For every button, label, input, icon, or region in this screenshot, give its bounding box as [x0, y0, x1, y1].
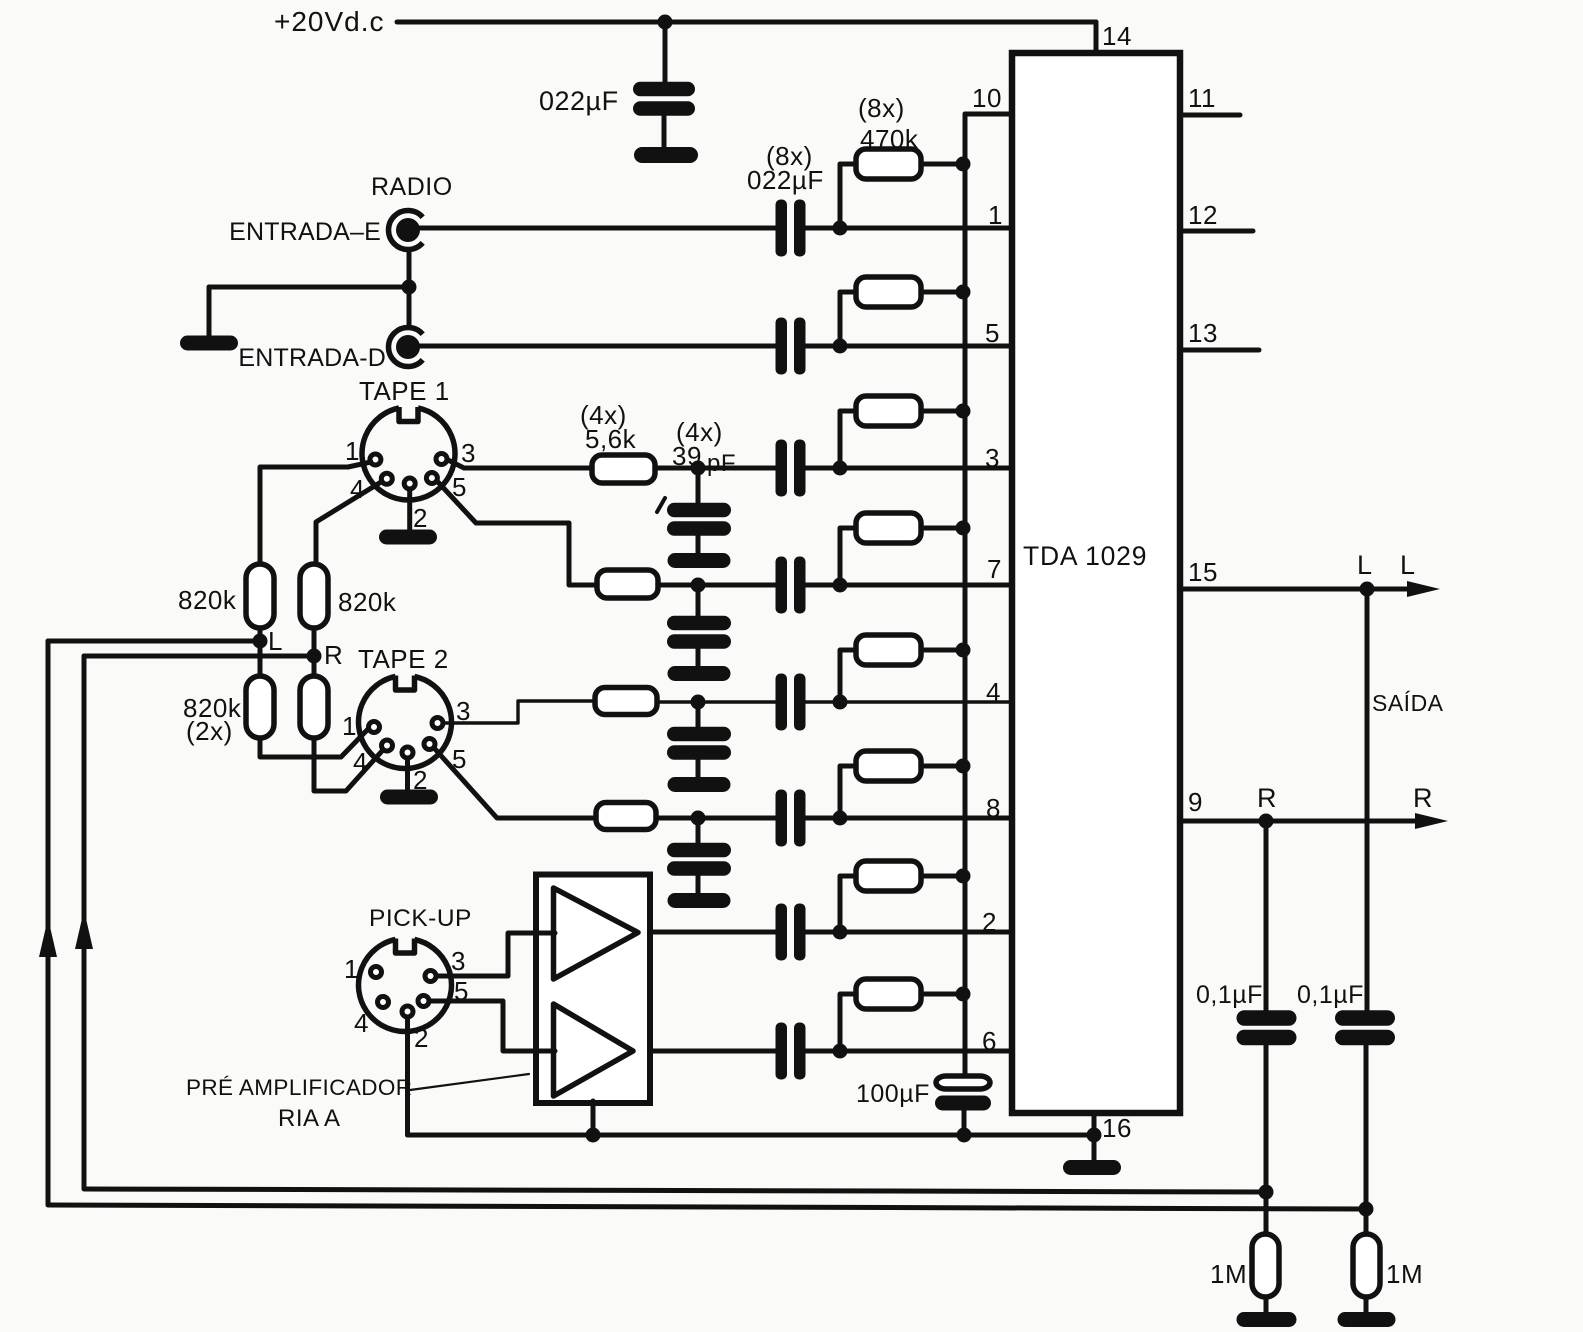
resistor R11 5,6k [595, 688, 657, 715]
node bus junction R1 [956, 157, 971, 172]
resistor R3 470k row pin 3 [840, 396, 963, 468]
wire U2 block ground lead [591, 1101, 596, 1135]
node row4 39pF tap [691, 695, 706, 710]
svg-text:2: 2 [414, 1023, 429, 1053]
svg-text:RADIO: RADIO [371, 173, 453, 201]
capacitor C5 022uF row pin 7 [776, 557, 806, 614]
label J5 pin 1 [344, 954, 359, 984]
wire J3 pin1 to R13 [260, 462, 371, 564]
node row3 39pF tap [691, 461, 706, 476]
arrow up on L feedback wire [39, 918, 57, 957]
wire J5 pin5 to A2 input [430, 1001, 555, 1051]
svg-text:9: 9 [1188, 787, 1203, 817]
wire J3 pin5 to R10 [437, 481, 597, 585]
svg-text:11: 11 [1188, 83, 1216, 113]
label J3 pin 5 [452, 472, 467, 502]
node bus junction R2 [956, 285, 971, 300]
node bus junction R4 [956, 521, 971, 536]
wire bottom ground rail [408, 1133, 1095, 1138]
ground below R18 [1338, 1312, 1396, 1327]
node row1 resistor tap [833, 221, 848, 236]
capacitor C8 022uF row pin 2 [776, 904, 806, 961]
wire J4 pin2 to ground [405, 758, 410, 789]
svg-text:1: 1 [988, 200, 1003, 230]
node L [253, 626, 283, 656]
node bus junction R8 [956, 987, 971, 1002]
capacitor C16 0,1uF on L line [1335, 1010, 1395, 1045]
svg-text:16: 16 [1102, 1113, 1132, 1143]
label L at node [1357, 550, 1373, 580]
node bus junction R6 [956, 759, 971, 774]
svg-text:8: 8 [986, 793, 1001, 823]
node 100uF ground junction [957, 1128, 972, 1143]
resistor R10 5,6k [597, 570, 658, 598]
svg-text:(2x): (2x) [186, 716, 233, 746]
svg-text:PRÉ AMPLIFICADOR: PRÉ AMPLIFICADOR [186, 1075, 412, 1100]
label RIAA [278, 1105, 341, 1132]
svg-text:13: 13 [1188, 318, 1218, 348]
label pin 14 [1102, 21, 1132, 51]
connector J5 PICK-UP DIN [359, 939, 452, 1032]
wire J4 pin3 to R11 [444, 701, 595, 723]
label R at arrow [1413, 783, 1433, 813]
wire row pin 6 line [629, 1049, 1012, 1054]
capacitor C3 022uF row pin 5 [776, 318, 806, 375]
label (8x) 470k [858, 93, 919, 154]
label J3 pin 1 [345, 436, 360, 466]
svg-text:3: 3 [985, 443, 1000, 473]
capacitor C2 022uF row pin 1 [776, 200, 806, 257]
node row5 resistor tap [833, 339, 848, 354]
op-amp U2 RIAA preamp block [536, 875, 650, 1104]
label pin 7 [987, 554, 1002, 584]
wire node R feedback to output R [84, 656, 1266, 1192]
svg-text:12: 12 [1188, 200, 1218, 230]
svg-text:1M: 1M [1210, 1259, 1247, 1289]
ground below C1 [634, 147, 698, 163]
wire row pin 1 mid segment [804, 226, 1012, 231]
node output R [1259, 814, 1274, 829]
svg-text:L: L [268, 626, 283, 656]
svg-text:ENTRADA–E: ENTRADA–E [229, 218, 381, 246]
capacitor C1 022uF supply decoupling [539, 22, 695, 148]
wire output R vertical [1264, 821, 1269, 1234]
label L at arrow [1400, 550, 1416, 580]
capacitor C15 0,1uF on R line [1237, 1010, 1297, 1045]
svg-text:10: 10 [972, 83, 1002, 113]
label J4 pin 1 [342, 711, 357, 741]
label pin 2 [982, 907, 997, 937]
svg-text:2: 2 [982, 907, 997, 937]
svg-text:4: 4 [354, 1008, 369, 1038]
svg-text:7: 7 [987, 554, 1002, 584]
capacitor C9 022uF row pin 6 [776, 1023, 806, 1080]
wire row pin 8 line [656, 816, 1012, 821]
svg-text:022µF: 022µF [747, 165, 824, 195]
node supply tap [658, 15, 673, 30]
svg-text:L: L [1357, 550, 1373, 580]
capacitor C7 022uF row pin 8 [776, 790, 806, 847]
capacitor C10 39pF [667, 468, 731, 555]
resistor R6 470k row pin 8 [840, 751, 963, 818]
label pin 1 [988, 200, 1003, 230]
wire row pin5 left (jack D to C3) [420, 344, 777, 349]
wire pin 12 stub [1180, 200, 1253, 231]
label PRE AMPLIFICADOR [186, 1075, 412, 1100]
label J5 pin 2 [414, 1023, 429, 1053]
wire pin 11 stub [1180, 83, 1240, 115]
connector J1 RCA ENTRADA-E [229, 211, 423, 250]
wire J3 pin3 to R9 [448, 460, 592, 468]
connector J3 TAPE 1 DIN [362, 407, 455, 500]
label 0,1uF right [1297, 981, 1364, 1009]
wire row pin1 left (jack E to C2) [420, 226, 777, 231]
svg-text:0,1µF: 0,1µF [1297, 981, 1364, 1009]
resistor R13 820k [178, 564, 274, 628]
label PICK-UP [369, 905, 472, 932]
node row2 resistor tap [833, 925, 848, 940]
label (4x) 5,6k [580, 400, 637, 454]
ground below R17 [1237, 1312, 1297, 1327]
resistor R4 470k row pin 7 [840, 513, 963, 585]
resistor R12 5,6k [596, 803, 656, 830]
label 0,1uF left [1196, 981, 1263, 1009]
label TAPE 2 [358, 644, 449, 674]
ground at entrada jacks [180, 336, 238, 351]
svg-text:6: 6 [982, 1026, 997, 1056]
op-amp U1 TDA1029 IC body [1012, 53, 1180, 1113]
label pin 3 [985, 443, 1000, 473]
label J3 pin 2 [413, 503, 428, 533]
resistor R1 470k row pin 1 [840, 149, 963, 228]
svg-text:(8x): (8x) [858, 93, 905, 123]
capacitor C13 39pF [667, 818, 731, 895]
svg-text:3: 3 [451, 946, 466, 976]
callout line to U2 [410, 1074, 529, 1090]
svg-text:TAPE 2: TAPE 2 [358, 644, 449, 674]
wire J5 pin2 down to ground rail [405, 1017, 410, 1135]
label pin 6 [982, 1026, 997, 1056]
resistor R9 5,6k [592, 455, 655, 483]
svg-text:820k: 820k [338, 587, 397, 617]
wire +20V supply rail [397, 22, 1096, 55]
label J4 pin 5 [452, 744, 467, 774]
resistor R14 820k [300, 564, 397, 628]
ground below C13 [668, 893, 731, 908]
label J5 pin 3 [451, 946, 466, 976]
wire pin 13 stub [1180, 318, 1259, 350]
svg-text:pF: pF [707, 450, 736, 477]
label +20Vd.c [274, 6, 385, 37]
svg-text:R: R [1257, 783, 1277, 813]
wire row pin 3 line [655, 466, 1012, 471]
node U2 ground junction [586, 1128, 601, 1143]
label pin 5 [985, 318, 1000, 348]
label pin 10 [972, 83, 1002, 113]
svg-text:4: 4 [986, 677, 1001, 707]
wire row pin 5 mid segment [804, 344, 1012, 349]
ground below C12 [668, 777, 731, 792]
wire bias bus (pin 10) [965, 114, 1012, 1080]
wire R15 to J4 pin1 [260, 726, 371, 757]
resistor R2 470k row pin 5 [840, 277, 963, 346]
label J3 pin 3 [461, 438, 476, 468]
svg-text:RIA A: RIA A [278, 1105, 341, 1132]
node L feedback junction [1359, 1202, 1374, 1217]
ground below C10 [668, 553, 731, 568]
wire row pin 2 line [636, 930, 1012, 935]
wire row pin 7 line [658, 583, 1012, 588]
svg-text:PICK-UP: PICK-UP [369, 905, 472, 932]
svg-text:1: 1 [342, 711, 357, 741]
resistor R17 1M [1210, 1234, 1279, 1297]
node R [307, 640, 344, 670]
svg-text:1M: 1M [1386, 1259, 1423, 1289]
capacitor C14 100uF [856, 1076, 991, 1135]
resistor R16 820k (2x) [300, 676, 328, 738]
svg-text:820k: 820k [178, 585, 237, 615]
label pin 8 [986, 793, 1001, 823]
label J3 pin 4 [350, 474, 365, 504]
svg-text:5,6k: 5,6k [585, 424, 637, 454]
label (4x) 39 pF [672, 417, 736, 477]
op-amp A1 triangle [554, 888, 639, 979]
capacitor C11 39pF [667, 585, 731, 668]
wire pin 16 stub [1087, 1113, 1132, 1143]
label J5 pin 5 [454, 976, 469, 1006]
capacitor C4 022uF row pin 3 [776, 440, 806, 497]
svg-text:R: R [1413, 783, 1433, 813]
svg-text:TDA 1029: TDA 1029 [1023, 541, 1147, 571]
wire J3 pin4 to R14 [316, 482, 381, 564]
node row8 39pF tap [691, 811, 706, 826]
svg-text:SAÍDA: SAÍDA [1372, 690, 1444, 716]
svg-text:0,1µF: 0,1µF [1196, 981, 1263, 1009]
node row3 resistor tap [833, 461, 848, 476]
svg-text:TAPE 1: TAPE 1 [359, 376, 450, 406]
label TAPE 1 [359, 376, 450, 406]
label R at node [1257, 783, 1277, 813]
label J4 pin 2 [413, 765, 428, 795]
svg-text:1: 1 [345, 436, 360, 466]
node row8 resistor tap [833, 811, 848, 826]
wire pin 9 output R [1180, 787, 1448, 829]
capacitor C6 022uF row pin 4 [776, 674, 806, 731]
node row7 39pF tap [691, 578, 706, 593]
node output L [1360, 582, 1375, 597]
ground at J3 pin 2 [379, 530, 437, 545]
svg-text:15: 15 [1188, 557, 1218, 587]
node row7 resistor tap [833, 578, 848, 593]
connector J2 RCA ENTRADA-D [238, 328, 422, 372]
svg-text:+20Vd.c: +20Vd.c [274, 6, 385, 37]
wire pin16 ground lead [1092, 1135, 1097, 1160]
svg-text:022µF: 022µF [539, 86, 619, 116]
label pin 4 [986, 677, 1001, 707]
label SAIDA [1372, 690, 1444, 716]
ground at pin 16 [1063, 1160, 1121, 1175]
wire R17 to ground [1264, 1297, 1269, 1313]
wire R14 to node R [312, 628, 317, 676]
wire J3 pin2 to ground [407, 489, 412, 529]
wire R16 to J4 pin4 [314, 738, 382, 791]
op-amp A2 triangle [554, 1004, 634, 1096]
svg-text:100µF: 100µF [856, 1080, 930, 1108]
label J4 pin 4 [353, 747, 368, 777]
svg-text:ENTRADA-D: ENTRADA-D [238, 344, 386, 372]
node bus junction R7 [956, 869, 971, 884]
wire pin 15 output L [1180, 557, 1440, 597]
svg-text:4: 4 [353, 747, 368, 777]
label RADIO [371, 173, 453, 201]
wire R13 to node L [258, 628, 263, 676]
node bus junction R3 [956, 404, 971, 419]
svg-text:1: 1 [344, 954, 359, 984]
resistor R15 820k (2x) [183, 676, 274, 746]
tick mark near 39pF [657, 498, 665, 512]
svg-text:5: 5 [985, 318, 1000, 348]
wire J5 pin3 to A1 input [437, 933, 555, 976]
resistor R7 470k row pin 2 [840, 861, 963, 932]
wire R18 to ground [1364, 1297, 1369, 1313]
ground at J4 pin 2 [380, 790, 438, 805]
wire node L feedback to output L [48, 641, 1367, 1209]
capacitor C12 39pF [667, 702, 731, 779]
label J4 pin 3 [456, 696, 471, 726]
svg-text:L: L [1400, 550, 1416, 580]
connector J4 TAPE 2 DIN [358, 676, 451, 769]
arrow up on R feedback wire [75, 910, 93, 949]
svg-text:2: 2 [413, 503, 428, 533]
label J5 pin 4 [354, 1008, 369, 1038]
label (8x) 022uF [747, 141, 824, 195]
wire J4 pin5 to R12 [435, 749, 596, 818]
resistor R18 1M [1353, 1234, 1423, 1297]
svg-text:3: 3 [461, 438, 476, 468]
ground below C11 [668, 666, 731, 681]
node R feedback junction [1259, 1185, 1274, 1200]
node row4 resistor tap [833, 695, 848, 710]
wire output L vertical [1366, 589, 1367, 1234]
wire jack E ground branch [209, 251, 417, 337]
svg-text:R: R [324, 640, 343, 670]
resistor R5 470k row pin 4 [840, 635, 963, 702]
svg-text:14: 14 [1102, 21, 1132, 51]
wire row pin 4 line [657, 700, 1012, 703]
node row6 resistor tap [833, 1044, 848, 1059]
resistor R8 470k row pin 6 [840, 979, 963, 1051]
node bus junction R5 [956, 643, 971, 658]
